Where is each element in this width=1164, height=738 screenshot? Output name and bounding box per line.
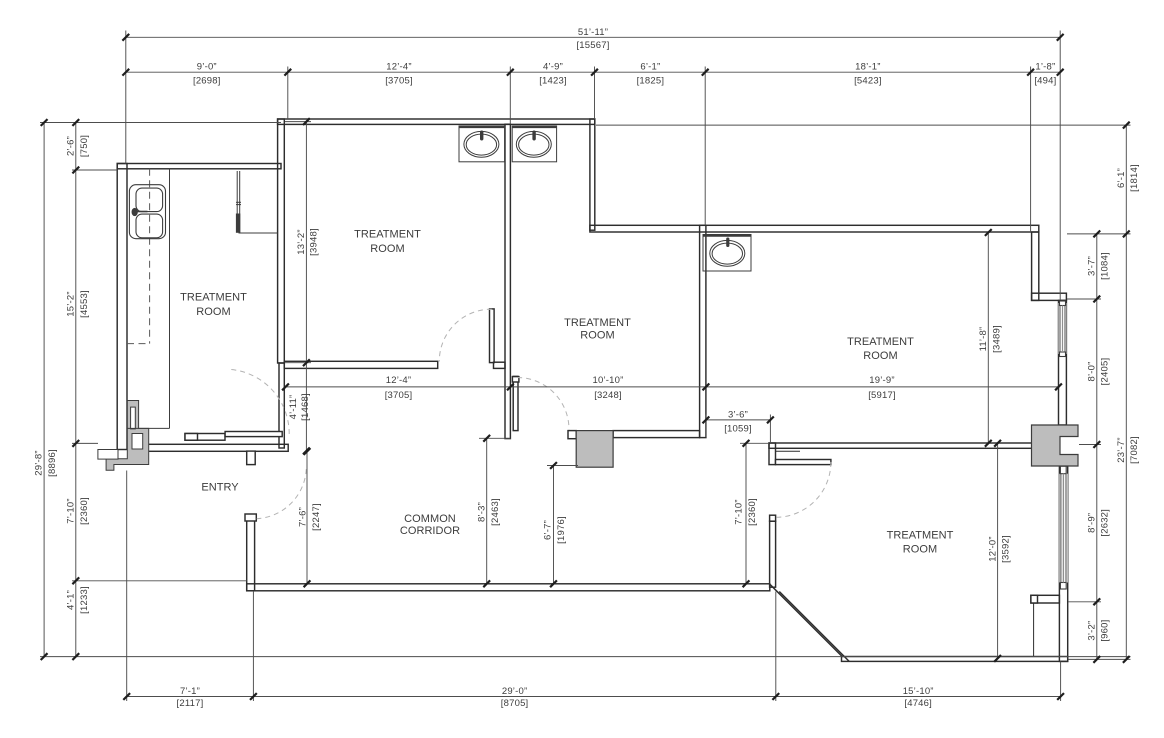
- svg-text:[1233]: [1233]: [79, 586, 90, 614]
- svg-text:[3489]: [3489]: [991, 325, 1002, 353]
- svg-text:[2117]: [2117]: [177, 698, 204, 709]
- ext left y123: [40, 122, 281, 124]
- svg-text:19’-9”: 19’-9”: [869, 375, 895, 386]
- svg-text:6’-1”: 6’-1”: [640, 62, 660, 73]
- dimension labels left column rotated: [34, 135, 90, 614]
- svg-text:ROOM: ROOM: [370, 243, 404, 255]
- dim line bottom: [127, 696, 1061, 698]
- jamb room5 lower: [770, 515, 776, 521]
- jamb leftroom south: [185, 434, 198, 441]
- svg-text:[1468]: [1468]: [300, 393, 311, 421]
- svg-text:15’-10”: 15’-10”: [903, 686, 934, 697]
- svg-text:TREATMENT: TREATMENT: [354, 229, 421, 241]
- svg-text:ROOM: ROOM: [863, 350, 897, 362]
- svg-text:6’-1”: 6’-1”: [1116, 168, 1127, 188]
- svg-text:[2405]: [2405]: [1100, 358, 1111, 386]
- wall room5 closet divider: [1033, 603, 1035, 657]
- svg-text:[2698]: [2698]: [193, 75, 221, 86]
- wall right step vertical: [1032, 232, 1039, 300]
- ext right y659.4: [1068, 658, 1130, 660]
- svg-text:[1825]: [1825]: [637, 75, 665, 86]
- svg-text:[5917]: [5917]: [868, 390, 896, 401]
- svg-text:[3248]: [3248]: [594, 390, 622, 401]
- svg-text:4’-1”: 4’-1”: [65, 590, 76, 610]
- door leaf room3: [513, 376, 518, 430]
- wall right step horizontal: [1032, 293, 1067, 300]
- svg-text:[2632]: [2632]: [1100, 509, 1111, 537]
- svg-text:[8896]: [8896]: [47, 449, 58, 477]
- svg-text:4’-9”: 4’-9”: [543, 62, 563, 73]
- svg-text:[2360]: [2360]: [747, 498, 758, 526]
- ext right y233.9: [1067, 233, 1131, 235]
- gray block right mid: [1032, 425, 1079, 466]
- sink left room double bowl: [129, 185, 165, 239]
- svg-text:3’-2”: 3’-2”: [1087, 621, 1098, 641]
- wall room4 east: [1059, 300, 1067, 425]
- svg-text:[2360]: [2360]: [79, 497, 90, 525]
- ext bottom x126.7: [126, 471, 128, 702]
- dim line 6-7: [553, 466, 555, 584]
- closet lines left room: [236, 171, 278, 233]
- dim line right outer 23-7 and 6-1: [1125, 125, 1127, 659]
- ext right y299: [1067, 298, 1101, 300]
- wall room3 south: [613, 431, 700, 438]
- wall room5 closet piece: [1031, 595, 1060, 603]
- dim line top row1 51-11: [126, 36, 1060, 38]
- svg-text:[1976]: [1976]: [556, 516, 567, 544]
- wall step vertical at x592: [590, 119, 595, 230]
- svg-text:7’-1”: 7’-1”: [180, 686, 200, 697]
- wall leftroom south piece: [185, 434, 225, 441]
- svg-text:8’-0”: 8’-0”: [1087, 361, 1098, 381]
- ext 3-6 right: [769, 415, 771, 444]
- wall diagonal outer: [770, 584, 842, 656]
- room labels: [180, 229, 954, 556]
- wall room5 west: [770, 521, 776, 587]
- svg-text:51’-11”: 51’-11”: [578, 27, 608, 38]
- dim line right chain: [1096, 234, 1098, 660]
- svg-text:7’-6”: 7’-6”: [298, 507, 309, 527]
- ext bottom long y656.8: [40, 656, 1131, 658]
- svg-text:[5423]: [5423]: [854, 75, 882, 86]
- wall room3-room4 north: [590, 225, 1039, 232]
- door arc room3: [517, 378, 569, 430]
- svg-text:[494]: [494]: [1034, 75, 1056, 86]
- svg-text:[4746]: [4746]: [904, 698, 932, 709]
- wall corridor south: [247, 584, 770, 591]
- svg-text:CORRIDOR: CORRIDOR: [400, 525, 460, 537]
- svg-text:2’-6”: 2’-6”: [65, 136, 76, 156]
- svg-text:TREATMENT: TREATMENT: [847, 336, 914, 348]
- svg-text:6’-7”: 6’-7”: [543, 520, 554, 540]
- svg-text:12’-4”: 12’-4”: [386, 62, 412, 73]
- ext 3-6 left: [705, 415, 707, 438]
- door arcs dashed: [231, 309, 831, 519]
- ext top x510.3: [509, 67, 511, 125]
- dim line 7-6: [306, 452, 308, 584]
- ext left y168.8: [72, 169, 117, 171]
- ext 8-3 top: [479, 437, 511, 439]
- svg-text:3’-7”: 3’-7”: [1087, 256, 1098, 276]
- ext 6-7 top: [547, 465, 578, 467]
- ext top-right x1060.2: [1059, 31, 1061, 301]
- wall central room2-room3: [505, 124, 510, 438]
- dimension labels bottom: [177, 686, 934, 709]
- door arc entry: [257, 469, 307, 519]
- door leaf room2: [490, 309, 495, 363]
- wall divider room3-room4: [700, 225, 706, 437]
- svg-text:[3592]: [3592]: [1000, 535, 1011, 563]
- ext bottom x253.4: [252, 591, 254, 701]
- dim line 13-2 and 4-11: [305, 122, 307, 363]
- window room5 east: [1059, 466, 1067, 589]
- ext 13-2 bottom: [285, 362, 311, 364]
- wall room5 north: [769, 443, 1033, 448]
- svg-text:10’-10”: 10’-10”: [593, 375, 624, 386]
- ext top x287.8: [287, 67, 289, 120]
- wall left-room west: [117, 164, 127, 450]
- jamb room5 north-west post: [769, 443, 776, 465]
- svg-text:[960]: [960]: [1100, 620, 1111, 642]
- wall entry north: [139, 444, 289, 451]
- svg-text:[1084]: [1084]: [1100, 252, 1111, 280]
- svg-text:ROOM: ROOM: [580, 330, 614, 342]
- svg-text:[1814]: [1814]: [1129, 164, 1140, 192]
- svg-text:8’-9”: 8’-9”: [1087, 513, 1098, 533]
- wall room5 east: [1059, 466, 1067, 661]
- sink counter top left room: [127, 169, 170, 429]
- svg-text:1’-8”: 1’-8”: [1035, 62, 1055, 73]
- svg-text:3’-6”: 3’-6”: [728, 409, 748, 420]
- dim line top row2: [126, 71, 1060, 73]
- wall diagonal inner: [779, 592, 849, 662]
- svg-text:12’-0”: 12’-0”: [987, 536, 998, 562]
- door header line room5: [776, 450, 801, 452]
- sink top 2: [512, 126, 556, 162]
- svg-text:8’-3”: 8’-3”: [477, 502, 488, 522]
- svg-text:[750]: [750]: [79, 135, 90, 157]
- svg-text:9’-0”: 9’-0”: [197, 62, 217, 73]
- dimension labels right column rotated: [1087, 164, 1141, 641]
- svg-text:[1059]: [1059]: [724, 423, 752, 434]
- dim line 3-6: [706, 419, 771, 421]
- svg-text:15’-2”: 15’-2”: [65, 291, 76, 317]
- wall corridor west post: [247, 519, 255, 591]
- svg-text:11’-8”: 11’-8”: [978, 327, 989, 352]
- jamb room5 closet: [1031, 595, 1038, 603]
- svg-text:[15567]: [15567]: [576, 40, 609, 51]
- svg-text:[7082]: [7082]: [1129, 436, 1140, 464]
- svg-text:[3705]: [3705]: [385, 390, 413, 401]
- sink top 1: [459, 126, 505, 162]
- svg-text:ROOM: ROOM: [196, 306, 230, 318]
- window room4 east: [1059, 301, 1067, 357]
- ext left y442.5: [72, 442, 98, 444]
- sink room4: [703, 235, 751, 272]
- svg-text:18’-1”: 18’-1”: [855, 62, 881, 73]
- svg-text:ENTRY: ENTRY: [201, 482, 239, 494]
- svg-text:TREATMENT: TREATMENT: [180, 292, 247, 304]
- svg-text:13’-2”: 13’-2”: [296, 229, 307, 255]
- door arc room2: [439, 309, 492, 361]
- gray entry wall complex: [98, 401, 149, 471]
- door arc room5: [776, 462, 831, 517]
- svg-text:[3705]: [3705]: [385, 75, 413, 86]
- gray shaft corridor: [576, 431, 613, 468]
- door leaf room5: [776, 460, 831, 465]
- dim line 11-8: [987, 232, 989, 443]
- door arc leftroom: [231, 370, 289, 435]
- jamb corridor west: [245, 514, 256, 521]
- svg-text:[4553]: [4553]: [79, 290, 90, 318]
- wall divider lower 4-11: [279, 363, 284, 448]
- svg-text:7’-10”: 7’-10”: [65, 498, 76, 524]
- dimension labels interior: [288, 228, 1011, 563]
- wall left-room north: [117, 164, 281, 169]
- ext 7-10R top: [740, 442, 768, 444]
- dim line 7-10R: [745, 443, 747, 584]
- svg-text:29’-0”: 29’-0”: [502, 686, 528, 697]
- jamb room3 south: [568, 431, 576, 439]
- jamb room3 door: [512, 377, 519, 382]
- ext right y443.9: [1079, 444, 1101, 446]
- svg-text:[3948]: [3948]: [309, 228, 320, 256]
- ext top x705.2: [704, 67, 706, 226]
- svg-text:7’-10”: 7’-10”: [734, 499, 745, 525]
- svg-text:[1423]: [1423]: [539, 75, 567, 86]
- wall room2 south: [284, 361, 437, 368]
- svg-text:12’-4”: 12’-4”: [386, 375, 412, 386]
- ext left y583.8: [72, 580, 247, 582]
- dim line left outer 29-8: [43, 123, 45, 657]
- ext right y601.8: [1068, 601, 1101, 603]
- jamb entry door: [247, 451, 256, 465]
- ext top x1030.6: [1030, 67, 1032, 233]
- dimension labels top row2: [193, 62, 1056, 87]
- ext top row x125.8: [125, 31, 127, 164]
- wall room5 south: [842, 657, 1068, 662]
- svg-text:COMMON: COMMON: [404, 513, 456, 525]
- dim line 12-0: [997, 443, 999, 658]
- dashed equipment outline left room: [127, 169, 150, 344]
- svg-text:TREATMENT: TREATMENT: [564, 317, 631, 329]
- svg-text:23’-7”: 23’-7”: [1116, 437, 1127, 463]
- dim line left chain: [75, 123, 77, 657]
- ext 13-2 top: [285, 121, 311, 123]
- svg-text:TREATMENT: TREATMENT: [887, 530, 954, 542]
- dim line interior y386.9: [286, 386, 1059, 388]
- jamb room2 door: [494, 362, 506, 368]
- ext right y125 long: [596, 124, 1131, 126]
- svg-text:[2247]: [2247]: [311, 503, 322, 531]
- door leaf leftroom: [225, 432, 282, 437]
- dimension labels top row1: [576, 27, 609, 51]
- wall divider room1-room2: [278, 119, 285, 363]
- ext bottom x1060.6: [1060, 662, 1062, 702]
- svg-text:[8705]: [8705]: [501, 698, 529, 709]
- dim line 8-3: [486, 438, 488, 584]
- svg-text:ROOM: ROOM: [903, 544, 937, 556]
- ext top x595.7: [594, 67, 596, 120]
- svg-text:[2463]: [2463]: [490, 498, 501, 526]
- wall room2 north: [278, 119, 595, 124]
- svg-text:29’-8”: 29’-8”: [34, 450, 45, 476]
- svg-text:4’-11”: 4’-11”: [288, 395, 299, 420]
- ext bottom x775.8: [775, 592, 777, 702]
